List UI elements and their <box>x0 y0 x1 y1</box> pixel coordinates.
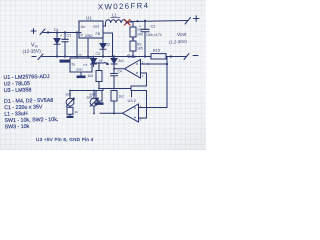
resistor under SW1 <box>69 106 71 107</box>
resistor 1k5 mid <box>98 63 100 71</box>
svg-text:U2: U2 <box>77 53 83 58</box>
node <box>132 55 134 57</box>
wire FB <box>103 33 113 57</box>
svg-text:5v: 5v <box>72 63 76 67</box>
op-amp U3.1 <box>125 60 141 79</box>
svg-text:+5: +5 <box>127 53 131 57</box>
svg-text:U1 - LM2576S-ADJ: U1 - LM2576S-ADJ <box>3 74 49 81</box>
svg-text:C1: C1 <box>67 34 72 38</box>
svg-text:GND: GND <box>85 34 93 38</box>
node a1 <box>56 31 58 33</box>
node <box>132 38 134 40</box>
notes text block <box>3 74 93 142</box>
wire U3.1 input top <box>141 63 168 65</box>
svg-text:C3: C3 <box>96 52 101 56</box>
svg-text:sw1: sw1 <box>66 93 72 97</box>
svg-text:Vout: Vout <box>177 32 187 38</box>
resistor sw3 lower left <box>96 91 102 102</box>
resistor 1k2 lower <box>111 91 117 102</box>
node b2 <box>64 55 66 57</box>
svg-text:(12-35V): (12-35V) <box>22 48 41 54</box>
capacitor C1 <box>64 33 66 57</box>
node <box>111 55 113 57</box>
node <box>113 68 115 70</box>
svg-text:1k: 1k <box>75 110 79 114</box>
capacitor C3 <box>93 57 95 59</box>
svg-text:U3 - LM358: U3 - LM358 <box>4 87 32 94</box>
capacitor C4 <box>111 74 118 76</box>
inductor L1 <box>106 20 127 23</box>
svg-text:(1.2-30V): (1.2-30V) <box>169 39 188 45</box>
wire U1 out <box>103 23 106 26</box>
diode D2 <box>102 38 104 57</box>
node <box>113 113 115 115</box>
svg-text:R15: R15 <box>153 49 160 53</box>
node <box>144 20 146 22</box>
paper background <box>0 0 206 150</box>
wire mid cross <box>99 88 131 90</box>
svg-text:sw2: sw2 <box>90 93 96 97</box>
node <box>93 90 95 92</box>
wire U2 gnd + ground bar <box>80 72 82 76</box>
svg-text:out: out <box>83 63 87 67</box>
svg-text:+: + <box>60 34 62 38</box>
node <box>113 55 115 57</box>
wire U3.1 output <box>114 68 125 70</box>
node <box>170 55 172 57</box>
svg-text:SW1 - 10k, SW2 - 10k,: SW1 - 10k, SW2 - 10k, <box>4 117 58 124</box>
node <box>113 88 115 90</box>
svg-text:240: 240 <box>137 33 143 37</box>
wire top input rail <box>43 32 81 34</box>
zener D3 <box>113 57 115 59</box>
svg-text:C2: C2 <box>151 25 156 29</box>
svg-text:100u x17V: 100u x17V <box>146 33 163 37</box>
svg-text:SW3 - 10k: SW3 - 10k <box>5 124 30 131</box>
node a2 <box>64 31 66 33</box>
wire +5V <box>92 62 104 64</box>
output - terminal <box>184 54 189 60</box>
svg-text:U3 +5V Pin 8, GND Pin 4: U3 +5V Pin 8, GND Pin 4 <box>36 137 94 142</box>
node <box>147 63 149 65</box>
node <box>93 56 95 58</box>
wire U2 feed <box>76 33 78 59</box>
node b1 <box>56 55 58 57</box>
svg-text:U2 - 78L05: U2 - 78L05 <box>4 81 30 88</box>
svg-text:1k2: 1k2 <box>119 95 125 99</box>
svg-text:FB: FB <box>96 32 101 36</box>
node <box>98 88 100 90</box>
node after L1 <box>130 20 132 22</box>
svg-text:D2: D2 <box>106 43 111 47</box>
wire top output rail <box>126 21 187 24</box>
node <box>98 62 100 64</box>
wire pots top <box>70 89 103 91</box>
svg-text:C1 - 220u x 35V: C1 - 220u x 35V <box>4 104 43 111</box>
thick bar under rail <box>60 60 71 63</box>
red x mark <box>125 20 131 26</box>
wire bottom rail right <box>166 56 186 58</box>
input + terminal <box>31 29 36 34</box>
resistor 1k5 <box>130 41 136 51</box>
svg-text:XW026FR4: XW026FR4 <box>98 1 150 11</box>
wire U1 gnd <box>87 38 89 57</box>
wire sense loop <box>139 57 168 108</box>
input - terminal <box>32 56 36 58</box>
regulator U2 <box>70 58 92 72</box>
node <box>93 113 95 115</box>
svg-text:GND: GND <box>76 68 82 72</box>
shunt resistor R15 <box>151 54 166 59</box>
wire bottom rail left <box>42 56 151 58</box>
svg-text:+: + <box>139 25 141 29</box>
svg-text:5: 5 <box>81 33 83 37</box>
svg-text:5v1: 5v1 <box>119 59 124 63</box>
wire U3.1 input bottom loop <box>131 73 147 91</box>
svg-text:U1: U1 <box>86 16 92 21</box>
wire U3.2 input loop <box>132 91 147 119</box>
regulator U1 <box>79 21 103 38</box>
op-amp U3.2 <box>123 104 139 122</box>
node <box>144 55 146 57</box>
feedback divider: resistor 240 <box>132 22 134 27</box>
svg-text:L1: L1 <box>112 13 117 18</box>
node <box>87 55 89 57</box>
svg-text:1k5: 1k5 <box>88 74 94 78</box>
svg-text:D1: D1 <box>54 28 59 32</box>
svg-text:U3.2: U3.2 <box>128 98 137 103</box>
node <box>102 55 104 57</box>
svg-text:1k5: 1k5 <box>137 47 143 51</box>
output + terminal <box>185 18 191 25</box>
wire U3.2 output <box>100 112 123 114</box>
capacitor C2 <box>144 21 146 57</box>
node a3 <box>76 31 78 33</box>
node <box>69 90 71 92</box>
svg-text:C4: C4 <box>118 70 122 74</box>
svg-text:1in: 1in <box>81 25 86 29</box>
wire SW2 wiper down <box>93 106 95 113</box>
svg-text:ou2: ou2 <box>93 24 99 28</box>
diode D1 <box>56 33 58 57</box>
